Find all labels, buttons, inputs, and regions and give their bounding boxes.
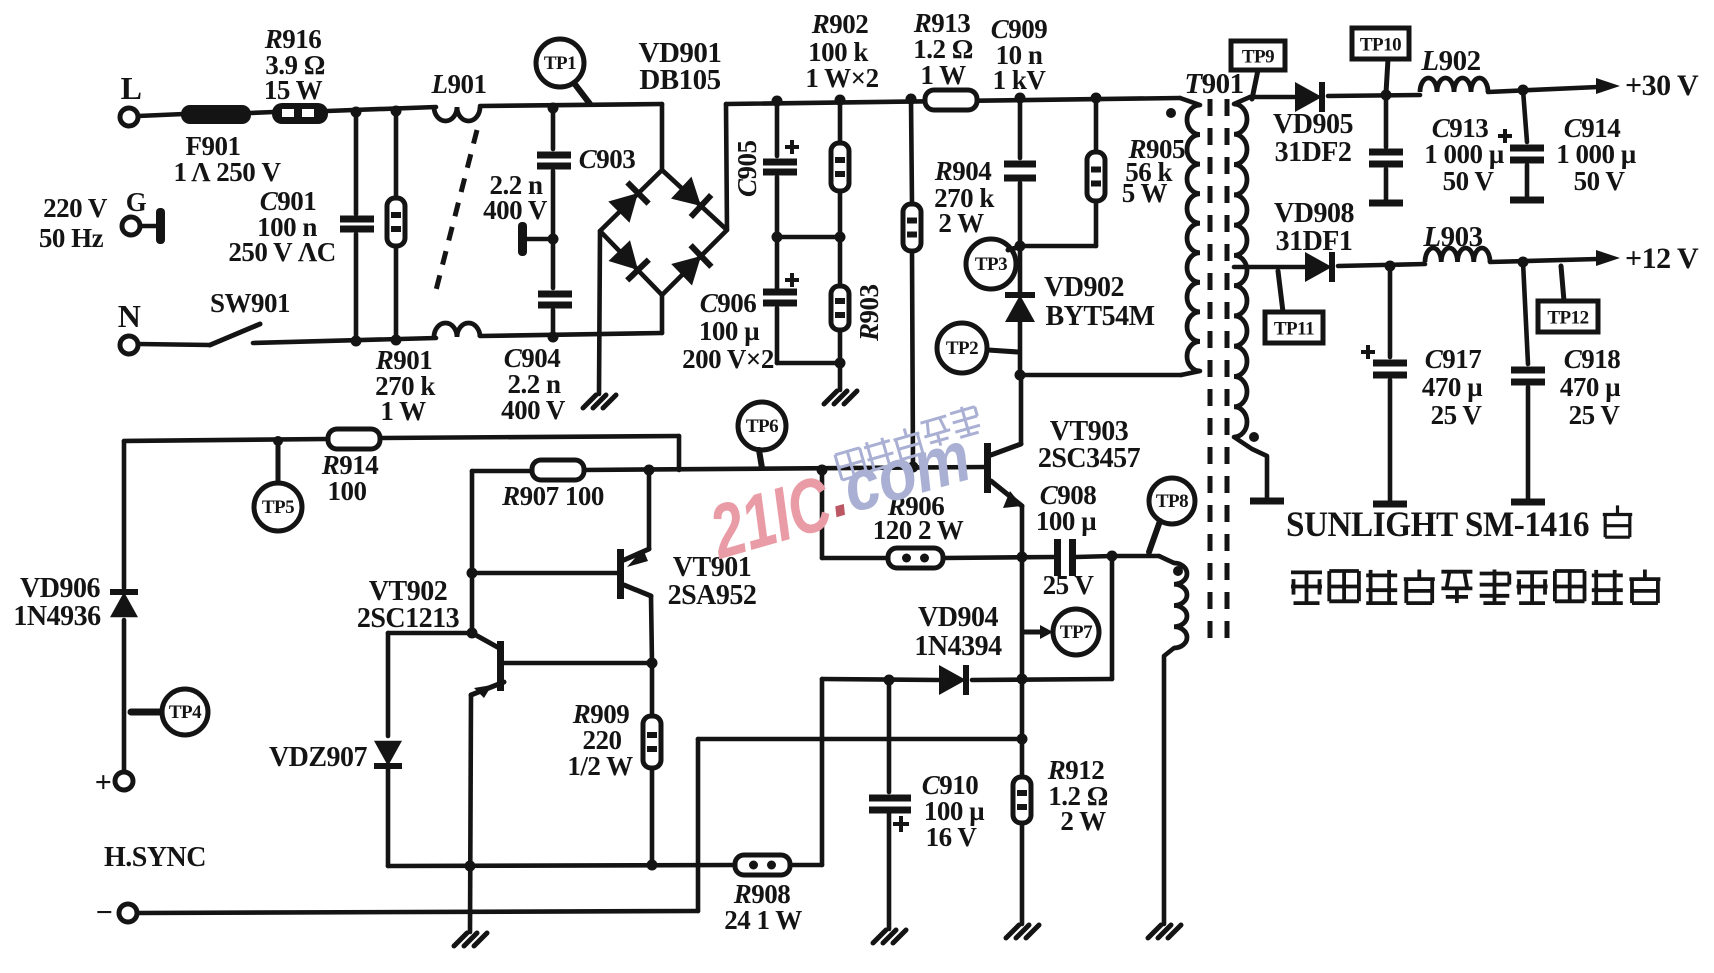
node junction C914: [1518, 85, 1529, 96]
svg-text:TP2: TP2: [946, 338, 978, 359]
node plus terminal: [95, 766, 133, 799]
svg-text:L902: L902: [1420, 45, 1480, 77]
svg-text:VDZ907: VDZ907: [269, 742, 368, 773]
svg-text:200 V×2: 200 V×2: [682, 344, 774, 374]
svg-text:1N4936: 1N4936: [13, 601, 101, 632]
node H.SYNC terminal: [96, 842, 206, 929]
node junction rail R902: [835, 95, 846, 106]
node junction bottom rail R901: [391, 335, 402, 346]
svg-text:TP12: TP12: [1547, 308, 1588, 329]
svg-text:50 Hz: 50 Hz: [39, 223, 104, 253]
diode VD905: [1273, 82, 1353, 168]
inductor L901: [431, 69, 487, 337]
wire R908 riser: [820, 679, 825, 865]
capacitor C904: [501, 294, 572, 425]
node junction VT902 base: [467, 628, 478, 639]
node junction rail C909: [1015, 93, 1026, 104]
wire base column VT902: [470, 471, 475, 633]
svg-text:H.SYNC: H.SYNC: [104, 842, 206, 873]
capacitor C918: [1511, 262, 1621, 498]
node junction C908 out: [1107, 551, 1118, 562]
chassis C913: [1369, 200, 1403, 207]
transformer core: [1210, 99, 1227, 640]
capacitor C913: [1369, 95, 1505, 199]
wire secondary tap to VD908: [1234, 265, 1307, 270]
node junction R904 base: [908, 462, 919, 473]
transformer T901 primary winding: [1180, 68, 1244, 375]
svg-text:25 V: 25 V: [1043, 570, 1095, 600]
svg-text:R904: R904: [934, 156, 992, 186]
wire L901 to bridge bottom rail: [480, 333, 662, 336]
test point TP8: [1149, 478, 1195, 552]
wire L902 to +30V: [1488, 87, 1598, 92]
wire C908 down: [1110, 556, 1115, 679]
zener VDZ907: [269, 633, 402, 866]
test point TP11: [1265, 271, 1323, 343]
svg-text:TP8: TP8: [1156, 491, 1188, 512]
node junction top rail C903: [548, 103, 559, 114]
svg-text:50 V: 50 V: [1574, 166, 1626, 196]
capacitor C905: [732, 101, 799, 288]
svg-text:31DF1: 31DF1: [1276, 226, 1353, 257]
svg-text:VD905: VD905: [1273, 109, 1353, 140]
svg-text:100: 100: [328, 476, 367, 506]
wire VT902 emitter to ground: [470, 695, 471, 932]
svg-text:VD908: VD908: [1274, 198, 1354, 229]
diode VD908: [1274, 198, 1354, 282]
node junction C905 R902 mid: [772, 232, 846, 243]
resistor R916: [264, 24, 328, 124]
svg-text:TP1: TP1: [544, 53, 576, 74]
resistor R904: [903, 99, 994, 467]
svg-text:G: G: [126, 187, 147, 217]
node feedback phase dot: [1173, 566, 1183, 576]
svg-text:25 V: 25 V: [1569, 400, 1621, 430]
svg-text:220 V: 220 V: [43, 193, 108, 223]
capacitor C908: [1036, 480, 1112, 600]
capacitor C917: [1361, 266, 1483, 500]
node junction bottom rail C904: [548, 332, 559, 343]
ground R903: [824, 391, 857, 404]
wire L to fuse: [138, 114, 184, 116]
svg-text:C917: C917: [1425, 344, 1482, 374]
svg-text:DB105: DB105: [639, 64, 720, 96]
node junction rail C905: [772, 96, 783, 107]
transformer feedback winding: [1159, 556, 1187, 924]
svg-text:1N4394: 1N4394: [914, 631, 1002, 662]
resistor R903: [831, 284, 884, 390]
wire R916 to L901: [327, 107, 436, 111]
svg-text:R902: R902: [811, 9, 869, 39]
wire primary bottom: [1020, 373, 1181, 378]
bridge rectifier VD901 frame: [600, 37, 727, 333]
node junction rail R905: [1091, 93, 1102, 104]
wire R906 drop: [820, 470, 825, 558]
node junction VD904 emitter: [1017, 674, 1028, 685]
svg-text:BYT54M: BYT54M: [1046, 301, 1155, 332]
svg-text:TP5: TP5: [262, 497, 294, 518]
transformer secondary winding: [1234, 97, 1267, 497]
node junction rail R904: [906, 94, 917, 105]
node junction R912 top: [1017, 734, 1028, 745]
svg-text:C906: C906: [700, 288, 757, 318]
svg-text:1/2 W: 1/2 W: [567, 751, 633, 781]
capacitor C914: [1498, 90, 1637, 196]
wire VD908 to L903: [1338, 264, 1425, 266]
svg-text:L901: L901: [431, 69, 487, 99]
svg-text:2SC3457: 2SC3457: [1038, 443, 1141, 474]
node junction top rail R901: [391, 106, 402, 117]
capacitor C909: [991, 14, 1048, 246]
svg-text:250 V ΛC: 250 V ΛC: [228, 237, 335, 267]
wire C908 to winding: [1112, 554, 1159, 559]
test point TP7: [1024, 609, 1099, 655]
resistor R901: [375, 111, 436, 426]
svg-text:T901: T901: [1184, 68, 1243, 100]
svg-text:1 W×2: 1 W×2: [805, 63, 878, 93]
test point TP12: [1538, 266, 1598, 332]
node junction VDZ bottom emitter: [465, 861, 476, 872]
wire VD904 line: [822, 679, 1112, 680]
node junction VD904 C910: [884, 675, 895, 686]
switch SW901: [138, 288, 290, 345]
node L input terminal: [120, 70, 141, 126]
svg-text:+: +: [95, 766, 112, 799]
svg-text:+12 V: +12 V: [1625, 242, 1699, 275]
node junction R909 top: [647, 658, 658, 669]
capacitor C910: [869, 680, 985, 929]
resistor R914: [321, 429, 380, 506]
svg-text:1 Λ 250 V: 1 Λ 250 V: [173, 157, 281, 187]
wire VT901 base: [472, 571, 618, 576]
node chassis stub: [518, 222, 559, 256]
svg-text:100 µ: 100 µ: [1036, 506, 1097, 536]
svg-text:1 000 µ: 1 000 µ: [1424, 139, 1505, 169]
svg-text:SUNLIGHT SM-1416: SUNLIGHT SM-1416: [1286, 504, 1589, 544]
diode VD901 bottom-left: [609, 240, 649, 280]
svg-text:VD904: VD904: [918, 602, 998, 633]
node junction primary bottom: [1015, 370, 1026, 381]
diode VD906: [13, 573, 138, 772]
svg-text:L903: L903: [1422, 221, 1482, 253]
svg-text:2 W: 2 W: [1060, 806, 1106, 836]
svg-text:TP6: TP6: [746, 416, 778, 437]
wire bridge minus to ground: [599, 231, 600, 394]
node junction VT901 base: [467, 568, 478, 579]
svg-text:25 V: 25 V: [1431, 400, 1483, 430]
node junction VT901 collector top: [644, 465, 655, 476]
test point TP5: [254, 436, 302, 531]
svg-text:50 V: 50 V: [1443, 166, 1495, 196]
fuse F901: [173, 105, 281, 187]
svg-text:TP3: TP3: [975, 254, 1007, 275]
ground feedback winding: [1148, 925, 1181, 938]
resistor R908: [724, 855, 802, 935]
chassis secondary return: [1250, 498, 1284, 505]
wire feedback bottom line: [388, 865, 822, 866]
wire R906 line: [822, 557, 1055, 558]
svg-text:TP10: TP10: [1360, 35, 1401, 56]
node +30V output: [1596, 69, 1699, 102]
test point TP2: [937, 323, 1018, 373]
svg-text:16 V: 16 V: [926, 822, 978, 852]
svg-text:TP7: TP7: [1060, 622, 1093, 643]
resistor R912: [1013, 755, 1108, 836]
test point TP4: [131, 689, 208, 735]
svg-text:400 V: 400 V: [501, 395, 566, 425]
svg-text:2SC1213: 2SC1213: [357, 603, 460, 634]
node junction C913: [1381, 90, 1392, 101]
svg-text:N: N: [118, 298, 141, 334]
node primary phase dot: [1166, 108, 1176, 118]
svg-text:400 V: 400 V: [483, 195, 548, 225]
ground R912: [1006, 925, 1039, 938]
ground C910: [873, 930, 906, 943]
svg-text:1 W: 1 W: [920, 60, 966, 90]
resistor R902: [805, 9, 878, 286]
transistor VT902: [357, 576, 652, 698]
diode VD901 top-left: [608, 182, 648, 222]
svg-text:+30 V: +30 V: [1625, 69, 1699, 102]
svg-text:470 µ: 470 µ: [1422, 372, 1483, 402]
resistor R906: [873, 491, 964, 568]
svg-text:TP4: TP4: [169, 702, 202, 723]
svg-text:1 W: 1 W: [380, 396, 426, 426]
svg-text:1 000 µ: 1 000 µ: [1556, 139, 1637, 169]
svg-text:R907 100: R907 100: [501, 481, 604, 511]
inductor L903: [1422, 221, 1490, 262]
diode VD901 top-right: [671, 177, 711, 217]
node +12V output: [1596, 242, 1699, 275]
svg-text:VD906: VD906: [20, 573, 100, 604]
resistor R905: [1020, 98, 1185, 246]
svg-text:24 1 W: 24 1 W: [724, 905, 802, 935]
diode VD904: [914, 602, 1002, 695]
transistor VT903: [984, 375, 1141, 924]
svg-text:15 W: 15 W: [264, 75, 323, 105]
wire secondary to VD905: [1250, 95, 1297, 100]
ground VT902 emitter: [454, 933, 487, 946]
test point TP3: [966, 239, 1019, 289]
wire DC plus rail: [726, 98, 1180, 104]
svg-text:TP11: TP11: [1274, 319, 1314, 340]
title line 1: [1286, 504, 1632, 544]
svg-text:100 µ: 100 µ: [699, 316, 760, 346]
svg-text:C903: C903: [579, 144, 636, 174]
wire L901 to bridge top rail: [480, 104, 662, 106]
test point TP10: [1352, 28, 1409, 93]
wire H.SYNC line: [137, 739, 1021, 913]
resistor R907: [501, 460, 604, 511]
node junction bottom rail C901: [351, 336, 362, 347]
diode VD901 bottom-right: [671, 245, 711, 285]
svg-text:R903: R903: [854, 284, 884, 342]
node N input terminal: [118, 298, 141, 354]
transistor VT901: [617, 470, 756, 663]
diode VD902: [1005, 246, 1155, 375]
node junction R906 drop: [817, 465, 828, 476]
title line 2: [1291, 570, 1660, 604]
svg-text:C918: C918: [1564, 344, 1621, 374]
wire L903 to +12V: [1490, 259, 1598, 262]
wire N rail to L901: [253, 338, 436, 343]
capacitor C903: [483, 108, 635, 288]
chassis C918: [1511, 499, 1545, 506]
wire R914 corner down: [677, 436, 682, 470]
test point TP9: [1231, 41, 1285, 99]
svg-text:SW901: SW901: [210, 288, 290, 318]
node junction top rail C901: [351, 107, 362, 118]
chassis C917: [1373, 501, 1407, 508]
resistor R913: [913, 8, 977, 110]
svg-text:5 W: 5 W: [1122, 178, 1168, 208]
wire left column: [122, 441, 127, 588]
resistor R909: [567, 663, 661, 865]
svg-text:L: L: [121, 70, 142, 106]
wire base rail R907 line: [472, 467, 987, 471]
watermark: [697, 403, 1001, 575]
svg-text:−: −: [96, 896, 113, 929]
node junction VD902 top: [1015, 241, 1026, 252]
svg-text:2SA952: 2SA952: [668, 580, 757, 611]
svg-text:2 W: 2 W: [938, 208, 984, 238]
wire bridge plus riser: [726, 104, 727, 230]
svg-text:31DF2: 31DF2: [1275, 137, 1352, 168]
node junction R909 bottom: [647, 860, 658, 871]
node junction C918: [1518, 257, 1529, 268]
chassis C914: [1510, 197, 1544, 204]
node secondary phase dot: [1249, 432, 1259, 442]
svg-text:C905: C905: [732, 140, 762, 197]
svg-text:VD902: VD902: [1044, 272, 1124, 303]
ground bridge minus: [583, 395, 616, 408]
test point TP6: [738, 402, 786, 468]
node junction C917: [1385, 261, 1396, 272]
node G ground terminal: [39, 187, 165, 253]
wire R914 rail: [124, 436, 679, 441]
inductor L902: [1420, 45, 1488, 92]
wire fuse to R916: [250, 112, 274, 113]
test point TP1: [536, 39, 590, 104]
svg-text:470 µ: 470 µ: [1560, 372, 1621, 402]
wire VDZ907 top: [388, 631, 472, 636]
capacitor C906: [682, 273, 840, 374]
node junction emitter C908: [1017, 552, 1028, 563]
wire VD905 to L902: [1328, 95, 1420, 96]
svg-text:TP9: TP9: [1242, 47, 1274, 68]
capacitor C901: [228, 112, 374, 341]
svg-text:1 kV: 1 kV: [993, 65, 1047, 95]
